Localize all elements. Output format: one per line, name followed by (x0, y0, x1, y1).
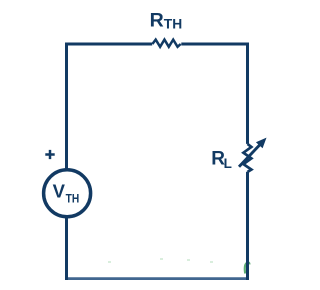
plus polarity mark of V_TH (45, 150, 54, 159)
svg-text:R: R (150, 10, 164, 32)
watermark green mark (bottom-right) (245, 263, 250, 274)
svg-text:V: V (53, 181, 66, 202)
arrowhead (R_L variable indicator) (256, 138, 267, 149)
svg-text:TH: TH (164, 17, 182, 32)
wire: right branch above R_L (246, 43, 249, 144)
watermark specks (108, 258, 213, 263)
wire: top segment left of R_TH (65, 43, 152, 46)
wire: top segment right of R_TH (181, 43, 249, 46)
arrow shaft (R_L variable indicator) (239, 145, 260, 167)
svg-text:L: L (224, 156, 232, 171)
resistor R_L (variable, zigzag body) (243, 144, 251, 172)
resistor R_TH (zigzag body) (152, 40, 180, 47)
voltage source V_TH (circle) (44, 170, 91, 217)
svg-text:TH: TH (66, 191, 80, 205)
wire: right branch below R_L (246, 172, 249, 280)
wire: left branch (through V_TH) (65, 44, 68, 280)
wire: bottom return segment (65, 277, 249, 280)
